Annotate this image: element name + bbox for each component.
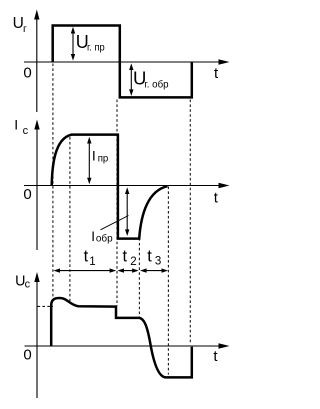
arrow Iobr measurement	[125, 187, 129, 236]
arrow t2 interval	[117, 268, 138, 272]
dashed line event6 gate off x=191.3	[189, 100, 191, 345]
svg-text:1: 1	[89, 256, 95, 268]
svg-text:обр: обр	[96, 233, 113, 245]
label Ic axis	[14, 117, 28, 138]
waveform Uc device voltage	[51, 298, 192, 377]
svg-text:пр: пр	[98, 153, 109, 164]
dashed line event3 gate reversal x=116.4	[116, 100, 118, 307]
axis Uc vertical	[34, 272, 39, 398]
label Iobr value	[91, 229, 113, 245]
svg-text:0: 0	[23, 64, 31, 81]
arrow t3 interval	[140, 268, 168, 272]
svg-text:г. обр: г. обр	[144, 78, 168, 90]
svg-text:0: 0	[23, 186, 31, 203]
waveform Ug gate voltage pulse	[53, 26, 192, 98]
axis Ug horizontal (t)	[24, 59, 230, 64]
svg-text:I: I	[14, 117, 18, 133]
arrow t1 interval	[53, 268, 116, 272]
svg-text:г: г	[23, 23, 27, 35]
arrow Ug.obr measurement	[129, 63, 133, 96]
axis Ic vertical	[34, 120, 39, 251]
svg-text:t: t	[123, 248, 128, 266]
svg-text:t: t	[84, 248, 89, 266]
svg-text:с: с	[23, 125, 29, 137]
svg-text:t: t	[147, 248, 152, 266]
axis Ug vertical	[34, 10, 39, 113]
label Ipr value	[92, 148, 109, 165]
svg-text:0: 0	[23, 347, 31, 364]
waveform Ic diode current	[52, 135, 168, 239]
label t3	[147, 248, 161, 268]
svg-text:г. пр: г. пр	[87, 43, 105, 54]
axis Ic horizontal (t)	[24, 183, 230, 188]
svg-text:I: I	[92, 148, 96, 164]
arrow Ipr measurement	[87, 137, 91, 185]
label Ug.obr value	[133, 68, 169, 91]
axis Uc horizontal (t)	[25, 343, 230, 348]
dashed line event5 current zero x=167.3	[167, 187, 169, 375]
arrow Ug.pr measurement	[71, 27, 75, 61]
label Uc axis	[15, 273, 31, 290]
svg-text:2: 2	[130, 256, 136, 268]
leader line Iobr label	[101, 216, 129, 230]
svg-text:с: с	[25, 278, 31, 290]
dashed line event2 Ic plateau x=69.7	[69, 137, 71, 303]
svg-text:I: I	[91, 229, 95, 244]
dashed line event1 turn-on x=52.6	[52, 64, 54, 299]
label Ug.pr value	[76, 32, 105, 54]
label t2	[123, 248, 137, 268]
label Ug axis	[13, 15, 27, 35]
svg-text:3: 3	[155, 256, 161, 268]
label t1	[84, 248, 96, 268]
dashed line event4 recovery start x=138.8	[138, 238, 140, 317]
dashed level line Uc steady	[38, 305, 54, 307]
